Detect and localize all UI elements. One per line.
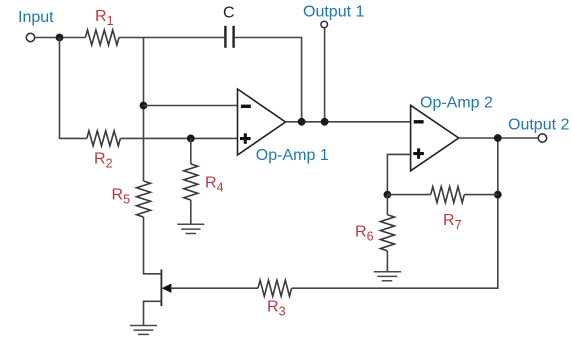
resistor R2 <box>87 131 121 146</box>
op-amp U2 <box>411 105 459 171</box>
svg-text:R2: R2 <box>94 151 113 171</box>
svg-text:Op-Amp 1: Op-Amp 1 <box>256 147 329 164</box>
svg-text:R3: R3 <box>267 299 286 319</box>
wire output1 down <box>324 29 326 122</box>
svg-text:Output 1: Output 1 <box>303 4 364 21</box>
output 2 terminal <box>538 134 546 142</box>
wire gate to R3 <box>171 287 259 289</box>
wire R6 top <box>386 195 388 215</box>
wire R4 to ground <box>190 200 192 224</box>
svg-text:R4: R4 <box>205 175 224 195</box>
wire R7 to right node <box>464 194 498 196</box>
wire op-amp1 output to op-amp2 minus <box>286 121 411 123</box>
output 1 terminal <box>321 21 328 28</box>
svg-text:Op-Amp 2: Op-Amp 2 <box>420 95 493 112</box>
wire to op-amp1 minus input <box>144 105 238 107</box>
transistor Q1 <box>144 269 172 325</box>
wire R5 to transistor drain <box>144 217 161 274</box>
node op-amp2 output <box>494 134 502 142</box>
op-amp U1 <box>238 89 286 155</box>
ground R6 <box>374 272 401 281</box>
svg-text:R6: R6 <box>355 224 374 244</box>
wire capacitor to op-amp1 output node <box>235 38 302 122</box>
wire input to R1 <box>35 37 86 39</box>
node minus input junction <box>140 102 148 110</box>
svg-text:Output 2: Output 2 <box>508 117 569 134</box>
node R2 R4 junction <box>187 135 195 143</box>
node op-amp1 output feedback <box>298 118 306 126</box>
ground R4 <box>177 224 204 233</box>
wire op-amp2 output <box>459 137 539 139</box>
svg-text:R7: R7 <box>443 212 462 232</box>
resistor R6 <box>380 215 394 251</box>
node R7 right junction <box>494 191 502 199</box>
wire op-amp2 plus input <box>387 154 410 194</box>
wire R2 to op-amp1 plus input <box>120 137 237 139</box>
ground Q1 source <box>130 326 157 335</box>
svg-text:C: C <box>223 5 235 22</box>
resistor R1 <box>85 30 119 45</box>
wire top node vertical x=143.5 <box>143 38 145 182</box>
resistor R7 <box>431 187 465 203</box>
svg-text:R5: R5 <box>112 187 131 207</box>
wire R4 top <box>190 138 192 164</box>
resistor R4 <box>184 164 198 200</box>
resistor R5 <box>137 181 151 217</box>
resistor R3 <box>258 280 292 296</box>
wire input down to R2 <box>60 38 87 139</box>
node input junction <box>56 34 64 42</box>
svg-text:R1: R1 <box>95 8 114 28</box>
input terminal <box>26 33 34 41</box>
svg-text:Input: Input <box>18 9 54 26</box>
node R6 junction <box>384 191 392 199</box>
capacitor C <box>225 26 233 48</box>
wire R3 to op-amp2 output node <box>292 138 498 288</box>
node output1 junction <box>321 118 329 126</box>
wire R6 node to R7 <box>387 194 430 196</box>
wire R1 to capacitor <box>119 37 224 39</box>
wire R6 to ground <box>386 251 388 272</box>
